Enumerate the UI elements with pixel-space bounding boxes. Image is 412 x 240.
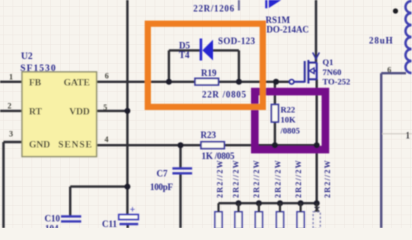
svg-text:104: 104 xyxy=(45,224,59,229)
svg-text:7N60: 7N60 xyxy=(323,67,342,77)
svg-text:RT: RT xyxy=(29,108,43,118)
svg-text:R23: R23 xyxy=(201,130,217,140)
svg-text:T4: T4 xyxy=(179,50,190,60)
svg-text:1K /0805: 1K /0805 xyxy=(202,151,236,161)
svg-text:SOD-123: SOD-123 xyxy=(218,36,256,46)
svg-text:28uH: 28uH xyxy=(369,36,393,46)
svg-text:100pF: 100pF xyxy=(150,182,174,192)
svg-text:2R2//2W: 2R2//2W xyxy=(231,160,240,198)
svg-text:RS1M: RS1M xyxy=(266,15,291,25)
svg-text:6: 6 xyxy=(105,72,109,81)
svg-text:2: 2 xyxy=(8,101,12,110)
svg-text:SENSE: SENSE xyxy=(58,140,92,150)
svg-text:5: 5 xyxy=(103,103,107,112)
svg-text:10K: 10K xyxy=(281,115,297,125)
svg-text:4: 4 xyxy=(105,135,109,144)
svg-text:+: + xyxy=(130,206,135,216)
svg-text:D5: D5 xyxy=(179,40,190,50)
svg-text:C10: C10 xyxy=(45,213,61,223)
svg-text:3: 3 xyxy=(9,130,13,139)
svg-text:R19: R19 xyxy=(201,68,217,78)
svg-text:2R2//2W: 2R2//2W xyxy=(323,160,332,198)
svg-text:VDD: VDD xyxy=(69,108,90,118)
svg-text:1: 1 xyxy=(9,73,13,82)
svg-text:1: 1 xyxy=(406,131,411,141)
svg-text:Q1: Q1 xyxy=(323,57,334,67)
svg-text:GND: GND xyxy=(29,140,50,150)
svg-text:/0805: /0805 xyxy=(280,126,300,136)
svg-text:6: 6 xyxy=(387,66,391,75)
svg-text:22R/1206: 22R/1206 xyxy=(193,3,234,13)
svg-text:FB: FB xyxy=(29,78,42,88)
svg-text:2R2//2W: 2R2//2W xyxy=(252,160,261,198)
svg-text:2R2//2W: 2R2//2W xyxy=(274,160,283,198)
svg-text:22R /0805: 22R /0805 xyxy=(202,90,247,100)
svg-text:C7: C7 xyxy=(157,169,168,179)
svg-text:2R2//2W: 2R2//2W xyxy=(215,160,224,198)
svg-text:2R2//2W: 2R2//2W xyxy=(294,160,303,198)
svg-text:C11: C11 xyxy=(102,219,118,228)
svg-text:GATE: GATE xyxy=(64,78,90,88)
svg-text:TO-252: TO-252 xyxy=(323,77,351,87)
svg-text:DO-214AC: DO-214AC xyxy=(266,25,309,35)
svg-text:R22: R22 xyxy=(281,105,296,115)
svg-text:U2: U2 xyxy=(21,52,33,62)
